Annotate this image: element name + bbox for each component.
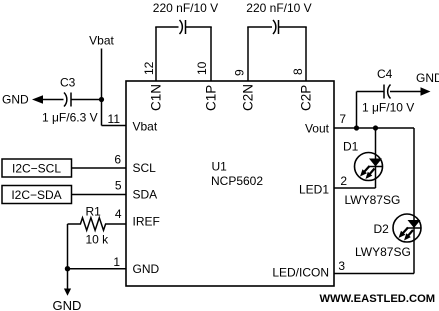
svg-text:D2: D2 (374, 222, 390, 236)
svg-text:LWY87SG: LWY87SG (345, 193, 401, 207)
signal box I2C-SDA (2, 186, 72, 204)
capacitor C3 (64, 93, 71, 107)
wire pin10 stub (210, 27, 212, 81)
svg-text:C1N: C1N (149, 84, 164, 111)
svg-text:9: 9 (233, 69, 247, 76)
wire pin3 (334, 273, 414, 275)
svg-text:10 k: 10 k (86, 233, 110, 247)
wire C4 left (357, 91, 385, 93)
capacitor C4 (384, 85, 391, 99)
svg-text:1 μF/6.3 V: 1 μF/6.3 V (42, 111, 98, 125)
svg-text:5: 5 (115, 179, 122, 193)
wire pin5 (72, 194, 127, 196)
capacitor C1 (180, 20, 186, 34)
wire C4 riser (356, 92, 358, 129)
junction at GND rail (65, 266, 70, 271)
svg-text:12: 12 (142, 61, 156, 75)
svg-text:GND: GND (53, 298, 82, 311)
wire C3 right (71, 99, 102, 101)
resistor R1 (68, 218, 127, 231)
svg-text:I2C−SCL: I2C−SCL (12, 161, 61, 175)
wire pin9 stub (247, 27, 249, 81)
svg-text:SDA: SDA (133, 187, 158, 201)
svg-text:I2C−SDA: I2C−SDA (11, 188, 61, 202)
wire pin12 stub (155, 27, 157, 81)
svg-text:6: 6 (114, 153, 121, 167)
svg-text:SCL: SCL (133, 161, 157, 175)
svg-text:LED1: LED1 (299, 183, 329, 197)
svg-text:NCP5602: NCP5602 (211, 174, 263, 188)
wire C2 top left (247, 26, 272, 28)
LED D2 (393, 214, 422, 242)
wire Vbat vertical (101, 49, 103, 126)
wire R1 down to GND rail (67, 224, 69, 269)
svg-text:8: 8 (291, 68, 305, 75)
svg-text:C2P: C2P (299, 85, 314, 111)
junction pin7/C4 (354, 125, 359, 130)
svg-text:1: 1 (113, 255, 120, 269)
svg-text:2: 2 (340, 174, 347, 188)
wire pin6 (72, 167, 127, 169)
svg-text:IREF: IREF (133, 215, 160, 229)
svg-text:LWY87SG: LWY87SG (355, 245, 411, 259)
wire D2 vertical (413, 128, 415, 274)
wire C3 to GND arrow (41, 99, 64, 101)
svg-text:R1: R1 (86, 205, 102, 219)
IC U1 NCP5602 body (126, 81, 334, 286)
svg-text:C2N: C2N (241, 84, 256, 111)
wire C2 top right (279, 26, 307, 28)
svg-text:7: 7 (339, 112, 346, 126)
wire pin7 horizontal (334, 127, 414, 129)
svg-text:Vout: Vout (305, 122, 330, 136)
svg-text:GND: GND (133, 262, 160, 276)
wire pin2 (334, 187, 376, 189)
svg-text:Vbat: Vbat (133, 120, 158, 134)
svg-text:LED/ICON: LED/ICON (272, 266, 329, 280)
LED D1 (355, 153, 383, 181)
wire C4 to GND arrow (390, 91, 422, 93)
svg-text:Vbat: Vbat (89, 34, 114, 48)
wire pin8 stub (305, 27, 307, 81)
svg-text:C1P: C1P (204, 85, 219, 111)
svg-text:WWW.EASTLED.COM: WWW.EASTLED.COM (320, 293, 436, 305)
svg-text:220 nF/10 V: 220 nF/10 V (246, 1, 311, 15)
svg-text:4: 4 (115, 207, 122, 221)
svg-text:10: 10 (195, 61, 209, 75)
wire C1 top left (155, 26, 178, 28)
svg-text:3: 3 (338, 259, 345, 273)
svg-text:GND: GND (2, 93, 29, 107)
ground arrow bottom (64, 289, 71, 296)
svg-text:C3: C3 (60, 76, 76, 90)
wire pin1 (68, 268, 127, 270)
junction at Vbat/C3 (99, 97, 104, 102)
svg-text:U1: U1 (212, 160, 228, 174)
junction pin7/D1 (373, 125, 378, 130)
wire C1 top right (186, 26, 212, 28)
svg-text:1 μF/10 V: 1 μF/10 V (362, 101, 414, 115)
ground arrow left (32, 95, 43, 103)
wire pin11 horizontal (102, 125, 127, 127)
svg-text:C4: C4 (377, 67, 393, 81)
svg-text:11: 11 (108, 112, 121, 126)
signal box I2C-SCL (2, 159, 72, 177)
svg-text:220 nF/10 V: 220 nF/10 V (153, 1, 218, 15)
wire to bottom GND arrow (67, 269, 69, 290)
svg-text:GND: GND (416, 71, 439, 85)
svg-text:D1: D1 (343, 140, 359, 154)
wire D1 vertical (375, 128, 377, 188)
capacitor C2 (273, 20, 279, 34)
ground arrow right (421, 87, 431, 95)
